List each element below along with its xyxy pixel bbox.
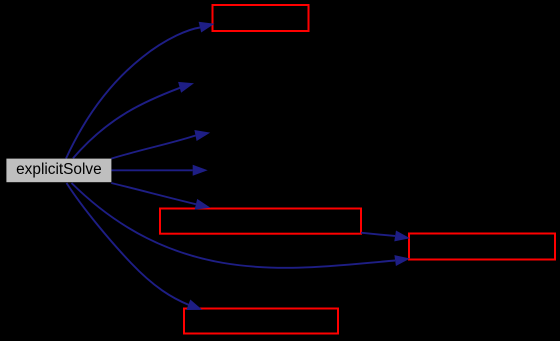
arrowhead to hidden node 3 <box>194 130 210 141</box>
wire edge explicitSolve to middle node <box>111 183 196 204</box>
arrowhead middle to right node <box>394 231 410 242</box>
node top (red) <box>213 5 309 31</box>
arrowhead to hidden node 4 <box>193 165 208 176</box>
arrowhead to middle node <box>195 199 211 210</box>
wire edge explicitSolve to right node (long sweep) <box>72 183 396 268</box>
wire edge explicitSolve to bottom node <box>67 183 190 305</box>
wire edge explicitSolve to hidden node 3 <box>111 136 195 159</box>
node bottom (red) <box>184 309 338 334</box>
arrowhead to right node lower <box>394 255 410 266</box>
wire edge middle node to right node <box>361 233 395 236</box>
node right (red) <box>409 234 555 260</box>
wire edge explicitSolve to hidden node 4 <box>112 169 193 171</box>
arrowhead to bottom node <box>186 300 202 311</box>
node middle (red) <box>160 209 361 234</box>
wire edge explicitSolve to top node <box>66 28 200 159</box>
arrowhead to top node <box>199 22 215 33</box>
node explicitSolve <box>6 159 111 183</box>
arrowhead to hidden node 2 <box>178 82 194 93</box>
svg-text:explicitSolve: explicitSolve <box>16 161 102 178</box>
wire edge explicitSolve to hidden node 2 <box>73 88 180 159</box>
